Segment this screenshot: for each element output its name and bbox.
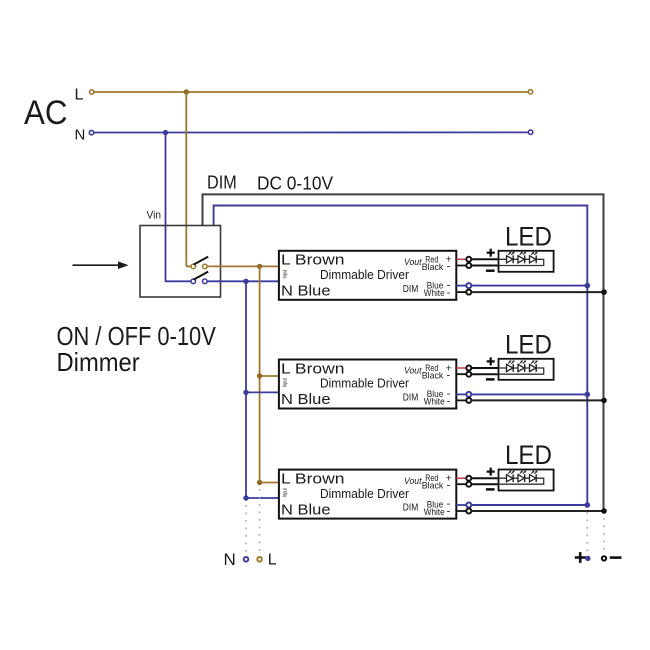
svg-text:N Blue: N Blue xyxy=(281,283,331,300)
svg-text:AC: AC xyxy=(24,94,68,132)
LED2 diode D1 xyxy=(507,360,515,372)
wire DC 0-10V (navy) to DIM+ bus xyxy=(214,206,588,506)
terminal L bottom xyxy=(257,557,262,562)
wire N (blue) xyxy=(94,131,528,133)
LED2 internal wire xyxy=(499,368,544,374)
connector U2 Vout+ xyxy=(466,366,471,371)
wire switch S1 to driver U1 L xyxy=(207,265,279,267)
svg-text:-: - xyxy=(447,506,451,518)
LED2 diode D3 xyxy=(530,360,538,372)
dimmer box xyxy=(140,226,221,298)
junction DIM- bus U1 xyxy=(601,289,607,295)
junction brown U2 xyxy=(257,373,262,378)
svg-text:Input: Input xyxy=(283,378,289,387)
junction DIM- bus U2 xyxy=(601,398,607,404)
dotted N continuation xyxy=(245,505,247,554)
label LED1 - xyxy=(486,269,495,272)
svg-text:Dimmer: Dimmer xyxy=(57,347,141,377)
wire N feed to switch xyxy=(166,133,191,282)
svg-text:Vout: Vout xyxy=(404,257,422,268)
label + terminal xyxy=(575,552,586,563)
wire U3 Vout+ to LED xyxy=(472,477,499,479)
wire switch S2 to driver U1 N xyxy=(207,280,279,282)
svg-text:-: - xyxy=(447,287,451,299)
svg-text:DIM: DIM xyxy=(403,284,419,295)
svg-text:N: N xyxy=(75,126,86,143)
label LED2 - xyxy=(486,378,495,381)
svg-text:Input: Input xyxy=(283,488,289,497)
svg-text:Dimmable Driver: Dimmable Driver xyxy=(320,267,410,282)
connector U2 DIM white xyxy=(466,398,471,403)
switch S1 pole (brown) xyxy=(186,257,208,269)
svg-text:-: - xyxy=(447,261,451,273)
LED module 3 box xyxy=(499,470,554,491)
svg-text:DIM: DIM xyxy=(403,503,419,514)
wire U3 DIM white xyxy=(456,510,466,512)
svg-text:Black: Black xyxy=(422,371,444,382)
svg-text:N: N xyxy=(224,550,236,569)
LED1 internal wire xyxy=(499,259,544,265)
svg-text:Dimmable Driver: Dimmable Driver xyxy=(320,486,410,501)
label LED3 + xyxy=(487,468,495,476)
branch blue to driver U2 xyxy=(246,391,279,393)
wire U3 DIM blue xyxy=(456,504,466,506)
junction brown bus top xyxy=(257,264,262,269)
wire DIM (dark) to DIM- bus xyxy=(203,194,604,511)
wire U2 DIM blue xyxy=(456,393,466,395)
junction N feed xyxy=(163,130,168,135)
connector U2 DIM blue xyxy=(466,392,471,397)
junction blue U2 xyxy=(243,390,248,395)
svg-text:L: L xyxy=(75,87,84,104)
junction brown U3 corner xyxy=(257,480,262,485)
svg-text:L: L xyxy=(268,552,277,569)
arrow input xyxy=(73,261,129,269)
junction blue U3 corner xyxy=(243,495,248,500)
driver U3 box xyxy=(279,470,456,519)
connector U3 Vout+ xyxy=(466,476,471,481)
svg-text:DC 0-10V: DC 0-10V xyxy=(257,174,333,194)
connector U1 Vout- xyxy=(466,263,471,268)
svg-text:Black: Black xyxy=(422,481,444,492)
wire L feed to switch xyxy=(185,92,187,266)
connector U1 DIM blue xyxy=(466,283,471,288)
svg-text:-: - xyxy=(447,369,451,381)
svg-text:-: - xyxy=(447,479,451,491)
connector U1 DIM white xyxy=(466,290,471,295)
svg-text:White: White xyxy=(424,507,445,518)
junction DIM+ bus U1 xyxy=(585,283,591,289)
svg-text:N Blue: N Blue xyxy=(281,501,331,518)
wire U2 Vout+ to LED xyxy=(472,367,499,369)
svg-text:White: White xyxy=(424,288,445,299)
wire U1 Vout- to LED xyxy=(472,265,499,267)
wire U2 DIM white to bus xyxy=(472,399,604,401)
LED1 diode D2 xyxy=(518,252,526,264)
wire L (brown) xyxy=(94,91,528,93)
connector U2 Vout- xyxy=(466,372,471,377)
label LED3 - xyxy=(486,488,495,491)
connector U1 Vout+ xyxy=(466,257,471,262)
wire U1 DIM blue to bus xyxy=(472,285,588,287)
wire U1 DIM white to bus xyxy=(472,291,604,293)
wire U2 DIM blue to bus xyxy=(472,393,588,395)
junction DIM- bus U3 xyxy=(601,508,607,514)
wire U3 DIM blue to bus xyxy=(472,504,588,506)
svg-text:Vout: Vout xyxy=(404,366,422,377)
wire U2 DIM white xyxy=(456,399,466,401)
branch brown to driver U2 xyxy=(260,375,279,377)
label LED2 + xyxy=(487,357,495,365)
wire U3 DIM white to bus xyxy=(472,510,604,512)
junction DIM+ bus U2 xyxy=(585,392,591,398)
blue N bus xyxy=(246,281,279,498)
label - terminal xyxy=(610,556,622,559)
driver U1 box xyxy=(279,251,456,300)
connector U3 DIM white xyxy=(466,509,471,514)
svg-text:Dimmable Driver: Dimmable Driver xyxy=(320,376,410,391)
junction L feed xyxy=(184,89,189,94)
svg-text:-: - xyxy=(447,396,451,408)
svg-text:DIM: DIM xyxy=(207,173,237,193)
svg-text:Input: Input xyxy=(283,269,289,278)
dotted DIM- continuation xyxy=(603,518,605,553)
svg-text:DIM: DIM xyxy=(403,393,419,404)
svg-text:LED: LED xyxy=(505,329,552,359)
LED3 internal wire xyxy=(499,478,544,484)
wire U3 Vout- to LED xyxy=(472,483,499,485)
terminal DIM- bottom xyxy=(602,556,606,560)
wire U1 DIM blue xyxy=(456,285,466,287)
terminal L end xyxy=(528,90,532,94)
junction blue bus top xyxy=(243,279,248,284)
LED3 diode D2 xyxy=(518,470,526,482)
LED module 1 box xyxy=(499,251,554,272)
wire U1 Vout+ red xyxy=(456,258,466,260)
svg-text:Black: Black xyxy=(422,262,444,273)
terminal L source xyxy=(90,90,94,94)
wire U2 Vout+ red xyxy=(456,367,466,369)
LED1 diode D3 xyxy=(530,252,538,264)
wire U1 DIM white xyxy=(456,291,466,293)
wire U1 Vout+ to LED xyxy=(472,258,499,260)
switch S2 pole (blue) xyxy=(191,272,208,284)
driver U2 box xyxy=(279,360,456,409)
wire U3 Vout+ red xyxy=(456,477,466,479)
terminal N end xyxy=(528,130,532,134)
svg-text:Vin: Vin xyxy=(147,210,162,222)
label LED1 + xyxy=(487,249,495,257)
LED3 diode D3 xyxy=(530,470,538,482)
dotted L continuation xyxy=(259,489,261,554)
brown L bus xyxy=(260,266,279,482)
junction DIM+ bus U3 xyxy=(585,502,591,508)
svg-text:White: White xyxy=(424,397,445,408)
terminal DIM+ bottom xyxy=(585,556,590,561)
LED2 diode D2 xyxy=(518,360,526,372)
svg-text:LED: LED xyxy=(505,440,552,470)
LED1 diode D1 xyxy=(507,252,515,264)
dotted DIM+ continuation xyxy=(586,512,588,553)
wire U3 Vout- black xyxy=(456,483,466,485)
LED module 2 box xyxy=(499,359,554,380)
svg-text:N Blue: N Blue xyxy=(281,391,331,408)
connector U3 DIM blue xyxy=(466,503,471,508)
wire U2 Vout- black xyxy=(456,373,466,375)
LED3 diode D1 xyxy=(507,470,515,482)
svg-text:LED: LED xyxy=(505,221,552,251)
wire U1 Vout- black xyxy=(456,265,466,267)
terminal N bottom xyxy=(244,557,249,562)
svg-text:Vout: Vout xyxy=(404,476,422,487)
terminal N source xyxy=(89,130,93,134)
wire U2 Vout- to LED xyxy=(472,373,499,375)
connector U3 Vout- xyxy=(466,482,471,487)
